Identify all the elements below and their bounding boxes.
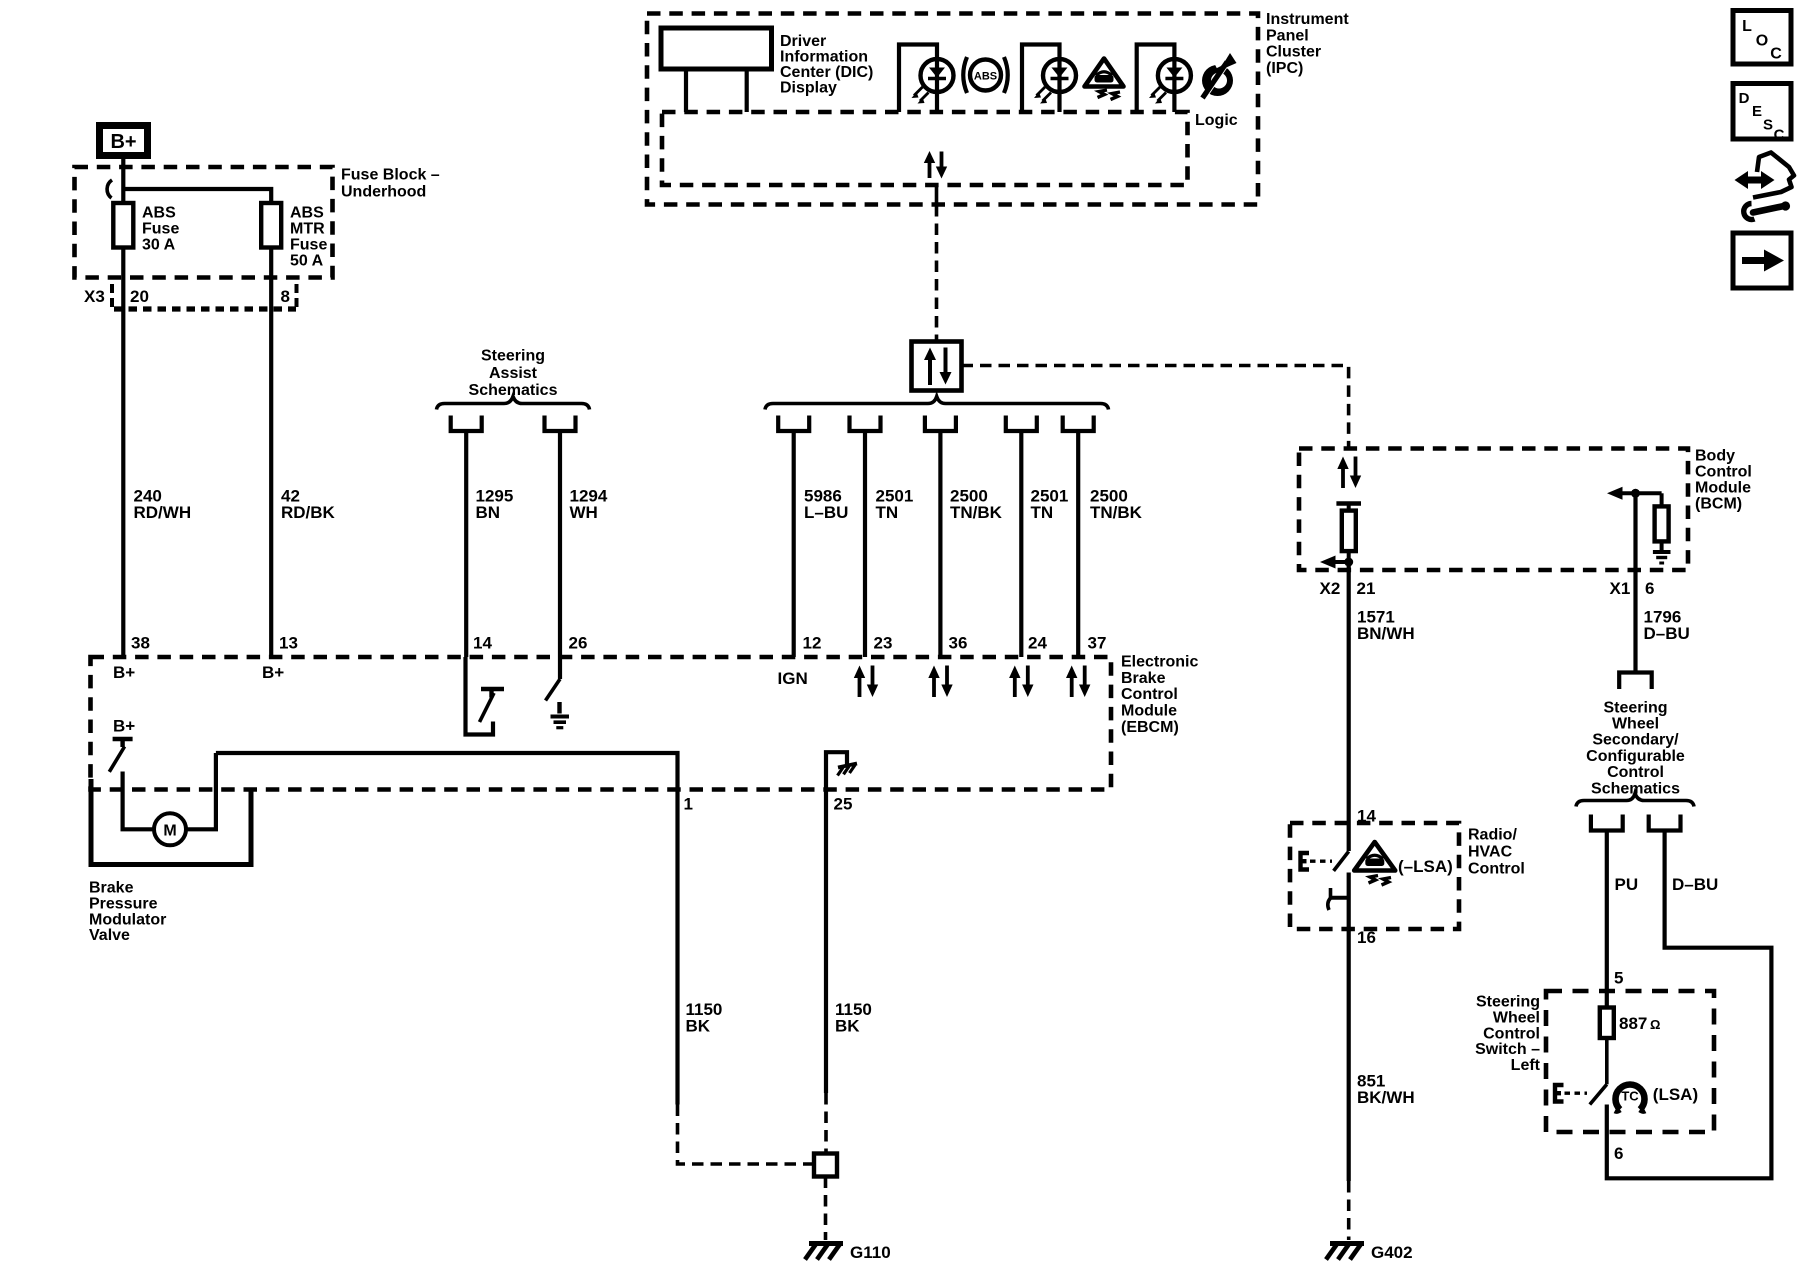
svg-text:Fuse: Fuse [142, 221, 179, 238]
svg-text:Logic: Logic [1195, 112, 1238, 129]
wire X1-6 [1633, 493, 1637, 672]
svg-text:Configurable: Configurable [1586, 748, 1685, 765]
connector X3 row [84, 284, 297, 309]
wire splice to G110 [824, 1177, 828, 1241]
svg-text:8: 8 [281, 287, 290, 306]
svg-text:O: O [1756, 33, 1768, 50]
connector 2500a [925, 416, 956, 432]
svg-text:X2: X2 [1320, 579, 1341, 598]
serial arrows pin37 [1066, 666, 1090, 698]
steering wheel control switch box [1546, 991, 1714, 1132]
svg-text:16: 16 [1357, 928, 1376, 947]
svg-text:MTR: MTR [290, 221, 325, 238]
node junction X1 [1631, 489, 1640, 498]
switch LSA left [1590, 1084, 1607, 1104]
IPC logic inner box [662, 112, 1188, 185]
svg-text:14: 14 [1357, 807, 1376, 826]
indicator lamp 2 (traction active) [1022, 45, 1076, 113]
svg-text:887: 887 [1619, 1014, 1647, 1033]
serial arrows pin36 [928, 666, 952, 698]
DESC icon box [1733, 84, 1791, 144]
svg-text:Module: Module [1121, 703, 1177, 720]
svg-text:PU: PU [1615, 875, 1639, 894]
clip symbol on B+ feed [107, 180, 112, 198]
connector E switch [1555, 1085, 1587, 1102]
connector 2501a [850, 416, 881, 432]
svg-text:Assist: Assist [489, 365, 538, 382]
svg-text:36: 36 [949, 634, 968, 653]
svg-text:Modulator: Modulator [89, 911, 166, 928]
svg-text:Underhood: Underhood [341, 184, 426, 201]
switch pump motor relay [109, 739, 132, 772]
brake pressure modulator valve outline [91, 779, 251, 865]
svg-text:D: D [1739, 90, 1750, 107]
wire motor feed [123, 772, 154, 830]
wire 42 RD/BK circuit [269, 248, 273, 658]
svg-text:Brake: Brake [89, 880, 134, 897]
splice S110 [814, 1154, 837, 1177]
ABS warning symbol [963, 57, 1008, 93]
svg-text:M: M [163, 822, 176, 839]
TC symbol switch [1615, 1085, 1645, 1111]
svg-text:Fuse: Fuse [290, 237, 327, 254]
motor M pump [154, 813, 186, 845]
wire motor return [186, 753, 216, 829]
wire 5986 L-BU [792, 431, 796, 657]
svg-text:D–BU: D–BU [1644, 624, 1690, 643]
wire 2501 TN b [1019, 431, 1023, 657]
svg-text:14: 14 [473, 634, 492, 653]
svg-text:B+: B+ [262, 663, 284, 682]
LOC icon box [1733, 11, 1791, 65]
svg-text:TN/BK: TN/BK [1090, 503, 1143, 522]
svg-text:BK: BK [835, 1017, 860, 1036]
wire X2-21 stub [1347, 562, 1351, 610]
svg-text:B+: B+ [113, 717, 135, 736]
connector D-BU [1649, 815, 1681, 831]
svg-text:20: 20 [130, 287, 149, 306]
TC off symbol [1202, 51, 1237, 98]
svg-text:(LSA): (LSA) [1653, 1085, 1698, 1104]
resistor BCM right [1655, 493, 1669, 550]
svg-text:Module: Module [1695, 479, 1751, 496]
svg-text:24: 24 [1028, 634, 1047, 653]
svg-text:12: 12 [803, 634, 822, 653]
wire 1571 BN/WH [1347, 610, 1351, 851]
svg-text:Valve: Valve [89, 927, 130, 944]
svg-text:Steering: Steering [481, 348, 545, 365]
indicator lamp 3 (TC off) [1137, 45, 1191, 113]
wire PU [1605, 831, 1609, 1008]
switch brake assist pin14 [466, 657, 505, 735]
svg-text:Control: Control [1468, 861, 1525, 878]
wire D-BU loop [1607, 831, 1772, 1179]
svg-text:B+: B+ [113, 663, 135, 682]
svg-text:Left: Left [1511, 1057, 1541, 1074]
resistor BCM pullup [1336, 504, 1361, 563]
diagnostic tool icon [1735, 153, 1795, 220]
svg-text:(IPC): (IPC) [1266, 60, 1303, 77]
wire 1294 WH [558, 431, 562, 657]
connector 2501b [1006, 416, 1037, 432]
svg-text:ABS: ABS [290, 205, 324, 222]
wire 1150 BK pin1 [675, 790, 679, 1105]
svg-text:Control: Control [1121, 686, 1178, 703]
radio HVAC control box [1290, 823, 1459, 929]
brace steering wheel group [1576, 794, 1694, 807]
wire radio switch lower [1347, 873, 1351, 1182]
svg-text:RD/WH: RD/WH [134, 503, 192, 522]
svg-text:Pressure: Pressure [89, 895, 158, 912]
svg-text:L–BU: L–BU [804, 503, 848, 522]
body control module BCM box [1299, 449, 1688, 571]
svg-text:1: 1 [684, 795, 693, 814]
forward arrow icon box [1733, 233, 1791, 288]
svg-text:S: S [1763, 117, 1773, 134]
connector 1294 [545, 416, 576, 432]
wire IPC serial data stub [935, 185, 939, 205]
svg-text:Cluster: Cluster [1266, 44, 1321, 61]
svg-text:X1: X1 [1610, 579, 1631, 598]
svg-text:BN: BN [476, 503, 501, 522]
wire 1150 BK pin25 [824, 790, 828, 1094]
arrow BCM input right [1607, 487, 1662, 500]
wire 2500 TN/BK a [938, 431, 942, 657]
svg-text:B+: B+ [110, 131, 136, 153]
svg-text:(EBCM): (EBCM) [1121, 719, 1179, 736]
svg-text:G402: G402 [1371, 1243, 1413, 1262]
wire 2500 TN/BK b [1076, 431, 1080, 657]
svg-text:HVAC: HVAC [1468, 844, 1513, 861]
instrument panel cluster IPC box [647, 14, 1258, 205]
contact resume radio [1328, 888, 1349, 910]
svg-text:Fuse Block –: Fuse Block – [341, 167, 440, 184]
svg-text:13: 13 [279, 634, 298, 653]
svg-text:Panel: Panel [1266, 27, 1309, 44]
svg-text:Wheel: Wheel [1612, 716, 1659, 733]
traction control warning triangle symbol [1085, 59, 1124, 100]
EBCM box [91, 657, 1112, 790]
switch radio LSA [1334, 851, 1349, 871]
ground internal pin25 [826, 752, 857, 789]
DIC display [661, 28, 772, 69]
serial arrows pin24 [1009, 666, 1033, 698]
serial arrows pin23 [854, 666, 878, 698]
svg-text:TC: TC [1621, 1089, 1639, 1104]
connector to steering wheel schematics [1619, 673, 1652, 690]
resistor 887 ohm [1600, 1008, 1614, 1039]
svg-text:50 A: 50 A [290, 253, 324, 270]
svg-text:G110: G110 [850, 1243, 891, 1262]
fuse block underhood box [75, 167, 333, 278]
wire 1295 BN [464, 431, 468, 657]
wire EBCM internal bus [216, 753, 678, 790]
svg-text:6: 6 [1614, 1144, 1623, 1163]
svg-text:Electronic: Electronic [1121, 653, 1198, 670]
svg-text:Control: Control [1483, 1025, 1540, 1042]
svg-text:Brake: Brake [1121, 670, 1166, 687]
svg-text:Ω: Ω [1650, 1017, 1660, 1032]
svg-text:Switch –: Switch – [1475, 1041, 1540, 1058]
wire 240 RD/WH circuit [121, 248, 125, 658]
connector 1295 [451, 416, 482, 432]
arrow BCM input left [1320, 556, 1349, 569]
svg-text:Body: Body [1695, 447, 1735, 464]
svg-text:BK: BK [686, 1017, 711, 1036]
wire B+ to ABS fuse [121, 159, 125, 203]
svg-text:Steering: Steering [1476, 994, 1540, 1011]
ground G110 [805, 1243, 891, 1262]
wire resistor to switch [1605, 1038, 1609, 1084]
ABS fuse 30A [113, 203, 133, 248]
wire 1150 BK pin1 dashed to splice [678, 1105, 815, 1165]
svg-text:21: 21 [1357, 579, 1376, 598]
ABS MTR fuse 50A [261, 203, 281, 248]
svg-text:26: 26 [569, 634, 588, 653]
svg-text:(BCM): (BCM) [1695, 495, 1742, 512]
svg-text:Wheel: Wheel [1493, 1009, 1540, 1026]
brace steering assist [437, 397, 590, 410]
svg-text:Control: Control [1695, 463, 1752, 480]
svg-text:TN: TN [1031, 503, 1054, 522]
svg-text:E: E [1752, 103, 1762, 120]
svg-text:X3: X3 [84, 287, 105, 306]
svg-text:Steering: Steering [1603, 699, 1667, 716]
svg-text:Instrument: Instrument [1266, 11, 1349, 28]
serial data gateway box [912, 342, 962, 391]
svg-text:D–BU: D–BU [1672, 875, 1718, 894]
connector PU [1591, 815, 1623, 831]
switch to ground pin26 [546, 657, 570, 728]
svg-text:Control: Control [1607, 764, 1664, 781]
svg-text:5: 5 [1614, 969, 1623, 988]
ground BCM internal [1653, 552, 1671, 563]
wire 1150 BK pin25 dashed to splice [824, 1093, 828, 1154]
svg-text:TN: TN [876, 503, 899, 522]
connector 5986 [778, 416, 809, 432]
svg-text:C: C [1770, 46, 1782, 63]
serial data arrows IPC [924, 151, 947, 179]
svg-text:(–LSA): (–LSA) [1398, 857, 1453, 876]
svg-text:Secondary/: Secondary/ [1592, 732, 1679, 749]
svg-text:Display: Display [780, 79, 837, 96]
svg-text:6: 6 [1645, 579, 1654, 598]
svg-text:RD/BK: RD/BK [281, 503, 336, 522]
wire 2501 TN a [863, 431, 867, 657]
svg-text:WH: WH [570, 503, 598, 522]
svg-text:BK/WH: BK/WH [1357, 1088, 1415, 1107]
svg-text:BN/WH: BN/WH [1357, 624, 1415, 643]
svg-text:L: L [1742, 18, 1752, 35]
brace serial data group [765, 397, 1109, 410]
serial arrows BCM [1337, 457, 1361, 489]
svg-text:ABS: ABS [974, 71, 997, 83]
wire B+ feed to ABS MTR fuse [123, 189, 271, 203]
traction symbol radio [1354, 842, 1395, 885]
node junction X2 [1344, 558, 1353, 567]
svg-text:C: C [1774, 127, 1785, 144]
connector E radio [1301, 853, 1333, 870]
svg-text:23: 23 [874, 634, 893, 653]
indicator lamp 1 (ABS) [899, 45, 954, 113]
battery feed B+ [100, 126, 148, 156]
svg-text:IGN: IGN [778, 669, 808, 688]
svg-text:Radio/: Radio/ [1468, 827, 1517, 844]
ground G402 [1326, 1243, 1413, 1262]
svg-text:25: 25 [834, 795, 853, 814]
svg-text:30 A: 30 A [142, 237, 176, 254]
svg-text:38: 38 [131, 634, 150, 653]
connector 2500b [1063, 416, 1094, 432]
svg-text:ABS: ABS [142, 205, 176, 222]
wire dashed gateway to BCM [962, 366, 1349, 449]
svg-text:TN/BK: TN/BK [950, 503, 1003, 522]
svg-text:37: 37 [1088, 634, 1107, 653]
wire serial data dashed to gateway [935, 205, 939, 342]
wire 851 dashed to G402 [1347, 1181, 1351, 1240]
